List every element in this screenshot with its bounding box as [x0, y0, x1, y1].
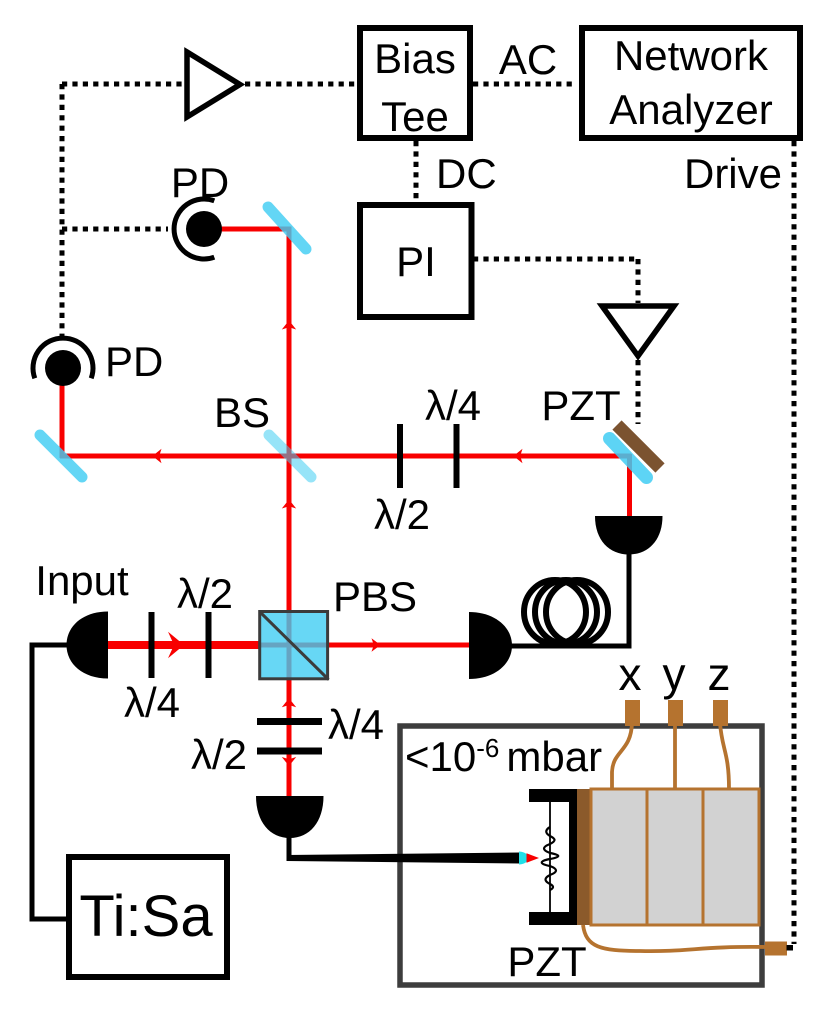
svg-text:PD: PD	[105, 338, 163, 385]
svg-text:λ/4: λ/4	[425, 382, 481, 429]
svg-text:AC: AC	[499, 36, 557, 83]
svg-text:λ/4: λ/4	[328, 701, 384, 748]
svg-text:Analyzer: Analyzer	[609, 86, 772, 133]
svg-text:Drive: Drive	[684, 150, 782, 197]
svg-text:PZT: PZT	[541, 382, 620, 429]
svg-text:BS: BS	[214, 389, 270, 436]
svg-text:PZT: PZT	[507, 938, 586, 985]
svg-text:λ/2: λ/2	[177, 570, 233, 617]
svg-text:Bias: Bias	[374, 35, 456, 82]
svg-text:Network: Network	[614, 32, 769, 79]
svg-text:λ/2: λ/2	[374, 491, 430, 538]
svg-text:PBS: PBS	[333, 573, 417, 620]
svg-text:x: x	[619, 648, 642, 700]
svg-text:λ/2: λ/2	[191, 731, 247, 778]
svg-text:PI: PI	[396, 238, 436, 285]
svg-text:Tee: Tee	[381, 93, 449, 140]
svg-text:λ/4: λ/4	[124, 679, 180, 726]
svg-text:Input: Input	[35, 557, 129, 604]
svg-text:DC: DC	[436, 150, 497, 197]
svg-text:y: y	[663, 648, 686, 700]
svg-text:PD: PD	[171, 159, 229, 206]
svg-text:z: z	[708, 648, 731, 700]
svg-text:Ti:Sa: Ti:Sa	[79, 884, 213, 949]
